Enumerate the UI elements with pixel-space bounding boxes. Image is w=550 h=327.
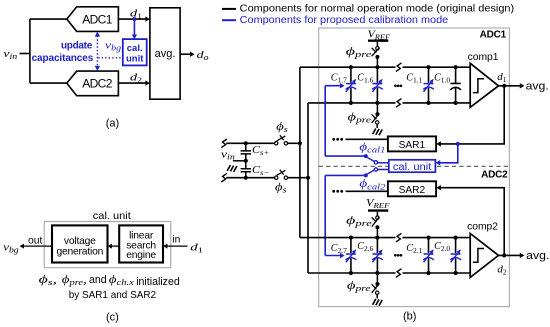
label avg top (b)	[526, 80, 549, 92]
node B junction dot	[306, 176, 310, 180]
svg-text:generation: generation	[56, 247, 103, 258]
svg-text:(a): (a)	[106, 118, 119, 130]
svg-text:(c): (c)	[106, 312, 119, 324]
wire blue arrow into C1.7	[325, 83, 344, 88]
wire blue cal2 vertical to C2.7	[324, 175, 326, 255]
capacitor C2.7 branch	[346, 236, 357, 276]
dots ellipsis SAR1 bus	[332, 138, 343, 141]
wire SAR1 output bus left	[346, 138, 388, 140]
wire ADC2 top bus	[300, 237, 470, 239]
label d1 (b)	[497, 71, 507, 84]
switch phi_pre ADC1 bottom	[372, 103, 380, 128]
label avg bottom (b)	[526, 250, 549, 262]
node Cs bottom junction dot	[244, 176, 248, 180]
dots ellipsis ADC2 array	[394, 254, 402, 257]
wire blue arrow into C2.7	[325, 253, 344, 258]
wire blue cal2 horizontal	[325, 174, 366, 176]
svg-text:SAR2: SAR2	[399, 185, 426, 196]
capacitor Cs+	[241, 143, 270, 161]
block ADC1 (a) pentagon	[67, 7, 119, 32]
label (a)	[106, 118, 119, 130]
wire comp2 to avg arrow	[499, 253, 525, 258]
break symbol ADC2 top bus	[396, 233, 403, 242]
wire net A vertical (b)	[299, 67, 301, 237]
label vbg (a) blue	[105, 39, 121, 52]
svg-text:capacitances: capacitances	[32, 53, 94, 64]
svg-text:unit: unit	[126, 53, 144, 64]
wire dotted blue vbg to cal unit (a)	[98, 57, 123, 59]
label C2.1	[406, 243, 422, 255]
switch phi_s top (b)	[275, 135, 288, 145]
wire to ADC2 tip (a)	[30, 82, 67, 84]
label vin (b)	[221, 149, 235, 162]
capacitor C1.6 branch	[372, 65, 383, 105]
label by SAR1 and SAR2 (c) line 2	[69, 290, 157, 301]
wire ADC2 bottom bus	[308, 272, 470, 274]
wire input top (b)	[226, 142, 274, 144]
divider dashed ADC1/ADC2 (b)	[319, 165, 510, 167]
node comp2 output dot	[502, 253, 506, 257]
block avg (a)	[150, 8, 180, 99]
wire input branch vertical (a)	[29, 19, 31, 83]
break symbol ADC1 top bus	[396, 63, 403, 72]
switch phi_s bottom (b)	[275, 170, 288, 180]
svg-text:avg.: avg.	[526, 80, 549, 92]
wire ground stub (b)	[233, 160, 246, 162]
wire comp1 to avg arrow	[499, 83, 525, 88]
block SAR1	[388, 136, 436, 151]
break symbol ADC2 bottom bus	[396, 269, 403, 278]
wire ADC1 top bus	[300, 66, 470, 68]
svg-text:(b): (b)	[403, 311, 416, 323]
capacitor Cs-	[241, 161, 270, 178]
svg-text:in: in	[172, 235, 180, 246]
box ADC1/ADC2 outline gray (b)	[319, 28, 510, 307]
svg-text:SAR1: SAR1	[399, 140, 426, 151]
ground ADC1 bottom	[373, 129, 383, 136]
wire d2 (a) with arrow	[118, 80, 149, 85]
label d1 (a)	[130, 8, 142, 21]
capacitor C2.6 branch	[372, 236, 383, 276]
svg-text:avg.: avg.	[155, 48, 176, 60]
legend black text	[240, 4, 515, 15]
label cal unit (c)	[93, 210, 131, 222]
wire vin stub (a)	[20, 53, 30, 55]
label phi_s bottom (b)	[275, 180, 287, 195]
ground ADC2 bottom	[373, 299, 383, 306]
node tap d1 blue dot (a)	[132, 17, 136, 21]
comparator comp2	[467, 221, 498, 277]
dots ellipsis SAR2 bus	[332, 190, 343, 193]
label phi_pre ADC2 top	[346, 213, 372, 228]
label (b)	[403, 311, 416, 323]
label C1.0	[434, 73, 450, 85]
svg-text:ADC2: ADC2	[481, 170, 508, 181]
supply VREF bar ADC1	[368, 40, 388, 42]
label C1.6	[357, 73, 373, 85]
wire d1 feedback to SAR1	[436, 86, 504, 147]
capacitor C1.7 branch	[346, 65, 357, 105]
wire arrow linear to voltage (c)	[108, 244, 120, 249]
capacitor C2.0 branch	[450, 236, 461, 276]
label phi_pre ADC1 bottom	[348, 109, 372, 124]
label VREF ADC2	[366, 198, 390, 210]
label d2 (a)	[130, 72, 142, 85]
wire blue cal1 horizontal	[325, 155, 366, 157]
box cal unit outline (c) gray	[44, 222, 171, 268]
svg-text:engine: engine	[126, 250, 156, 261]
legend blue text	[240, 15, 449, 26]
label phi_cal2 blue	[359, 176, 386, 191]
wire out arrow (c)	[20, 244, 52, 249]
capacitor C2.1 branch	[423, 236, 434, 276]
wire d2 feedback to SAR2	[436, 185, 504, 255]
label phi_pre ADC2 bottom	[347, 278, 371, 293]
switch phi_pre ADC2 bottom	[372, 273, 380, 298]
label phis phipre phichx initialized (c) line 1	[39, 272, 180, 288]
block cal unit (b) blue	[389, 160, 436, 173]
svg-text:comp2: comp2	[467, 221, 498, 232]
node Cs top junction dot	[244, 141, 248, 145]
ground at vin middle node	[227, 165, 237, 172]
wire blue arrow d1 to cal unit (a)	[132, 19, 137, 39]
switch phi_pre ADC1 top	[372, 42, 380, 67]
block ADC2 (a) pentagon	[67, 71, 119, 96]
svg-text:ADC2: ADC2	[82, 76, 113, 90]
wire blue d1 to cal unit (b)	[436, 144, 458, 166]
legend black dash	[222, 8, 236, 10]
wire d1 (a) with arrow	[118, 16, 149, 21]
wire input bottom (b)	[226, 177, 274, 179]
block SAR2	[388, 181, 436, 196]
label ADC1 (b)	[480, 30, 507, 41]
label C2.6	[357, 241, 373, 253]
supply VREF bar ADC2	[368, 209, 388, 211]
svg-text:Components for proposed calibr: Components for proposed calibration mode	[240, 15, 449, 26]
node d1 blue tap dot (b)	[456, 142, 460, 146]
svg-text:update: update	[61, 41, 93, 52]
capacitor C1.1 branch	[423, 65, 434, 105]
label phi_s top (b)	[276, 119, 288, 134]
wire dotted blue double arrow update (a)	[95, 32, 100, 71]
wire net B vertical (b)	[307, 103, 309, 273]
label C2.7	[331, 243, 347, 255]
svg-text:ADC1: ADC1	[480, 30, 507, 41]
wire phi_s bottom to node B	[288, 177, 308, 179]
node A junction dot	[298, 141, 302, 145]
label do (a)	[197, 49, 209, 62]
label out (c)	[28, 235, 42, 246]
label phi_cal1 blue	[359, 139, 385, 154]
svg-text:avg.: avg.	[526, 250, 549, 262]
legend blue dash	[222, 19, 236, 21]
switch phi_cal2 blue	[364, 168, 389, 178]
label C1.1	[406, 73, 422, 85]
switch phi_cal1 blue	[364, 154, 389, 164]
svg-text:out: out	[28, 235, 42, 246]
label vbg (c)	[3, 241, 19, 254]
svg-text:voltage: voltage	[64, 236, 96, 247]
label update capacitances (a) blue	[32, 41, 94, 65]
label C1.7	[331, 73, 347, 85]
wire do output arrow (a)	[180, 52, 195, 57]
switch phi_pre ADC2 top	[372, 212, 380, 238]
label in (c)	[172, 235, 180, 246]
block linear search engine (c)	[119, 225, 163, 262]
node comp1 output dot	[502, 84, 506, 88]
break symbol input wire bottom (b)	[221, 173, 227, 182]
label d1 (c)	[190, 241, 203, 254]
label VREF ADC1	[368, 30, 391, 42]
comparator comp1	[468, 52, 499, 108]
wire phi_s top to node A	[288, 142, 300, 144]
capacitor C1.0 branch fixed	[450, 65, 461, 105]
label phi_pre ADC1 top	[346, 44, 372, 59]
svg-text:cal. unit: cal. unit	[93, 210, 131, 222]
wire ADC1 bottom bus	[308, 102, 470, 104]
svg-text:Components for normal operatio: Components for normal operation mode (or…	[240, 4, 515, 15]
wire in arrow (c)	[163, 244, 188, 249]
block voltage generation (c)	[52, 225, 108, 262]
wire to ADC1 tip (a)	[30, 18, 67, 20]
node vin (a)	[3, 48, 17, 61]
node Cs middle junction dot	[244, 159, 248, 163]
label d2 (b)	[497, 264, 507, 277]
svg-text:ADC1: ADC1	[82, 12, 113, 26]
label (c)	[106, 312, 119, 324]
break symbol ADC1 bottom bus	[396, 99, 403, 108]
wire blue cal1 vertical to C1.7	[324, 86, 326, 156]
label C2.0	[434, 241, 450, 253]
wire SAR2 output bus left	[346, 190, 388, 192]
svg-text:cal. unit: cal. unit	[393, 162, 432, 173]
label ADC2 (b)	[481, 170, 508, 181]
block cal unit (a) blue	[123, 39, 147, 65]
svg-text:by SAR1 and SAR2: by SAR1 and SAR2	[69, 290, 157, 301]
svg-text:comp1: comp1	[468, 52, 499, 63]
dots ellipsis ADC1 array	[394, 84, 402, 87]
svg-text:cal.: cal.	[127, 43, 143, 54]
break symbol input wire top (b)	[221, 139, 227, 148]
